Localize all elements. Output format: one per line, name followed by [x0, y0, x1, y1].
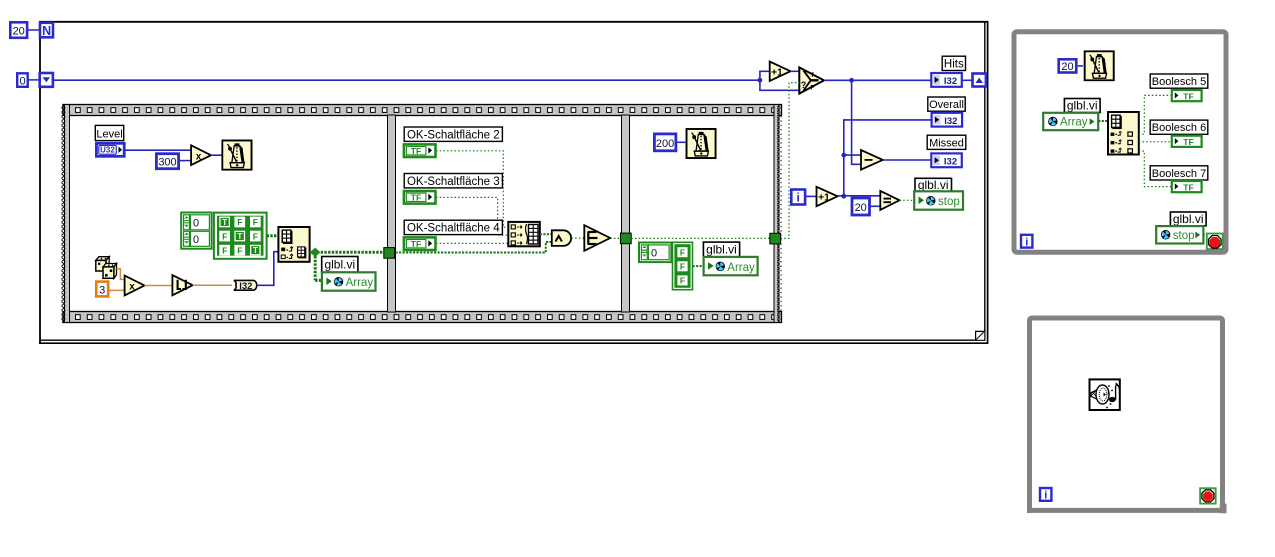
svg-text:N: N [42, 24, 51, 38]
svg-text:+1: +1 [771, 68, 783, 79]
Level label [95, 125, 123, 140]
svg-text:I32: I32 [944, 156, 957, 167]
wire index array to Boolesch 7 [1139, 151, 1172, 187]
wire index array to Boolesch 6 [1139, 141, 1172, 143]
constant 20 (lower) [852, 198, 870, 215]
svg-text:T: T [237, 232, 242, 241]
array cell F (1,0) [219, 231, 230, 242]
constant 200 [654, 134, 676, 151]
svg-text:glbl.vi: glbl.vi [324, 258, 355, 272]
glbl.vi label (loop 1 array) [1064, 99, 1100, 113]
flat sequence bottom film strip [63, 312, 782, 323]
dotted wire array global to index array [1098, 120, 1108, 122]
svg-text:0: 0 [19, 75, 25, 87]
svg-text:20: 20 [1061, 61, 1073, 73]
wire +1 to equal node [838, 195, 881, 197]
wire TF2 to build array [436, 151, 508, 227]
wire 20 to N [28, 29, 39, 31]
index array node (loop 1) [1108, 112, 1139, 155]
junction dot [758, 78, 763, 83]
svg-text:+1: +1 [818, 193, 830, 204]
2D boolean array constant index block [181, 213, 211, 249]
svg-text:F: F [680, 262, 685, 272]
wire I32 to replace array subset [257, 252, 279, 286]
to-I32 conversion node [234, 280, 257, 292]
svg-text:TF: TF [1183, 91, 1193, 101]
constant 300 [156, 154, 178, 169]
svg-text:F: F [253, 217, 258, 227]
svg-text:F: F [253, 231, 258, 241]
branch to subtract upper input [844, 154, 861, 156]
wire 20 to equal node [870, 205, 880, 207]
Overall I32 indicator [932, 113, 963, 127]
array cell F (1,2) [250, 231, 261, 242]
Boolesch 5 label [1150, 74, 1208, 88]
beep.vi sound icon (loop 2) [1090, 379, 1120, 410]
svg-text:Boolesch 7: Boolesch 7 [1152, 168, 1206, 180]
Missed label [927, 135, 966, 149]
svg-text:TF: TF [411, 239, 421, 249]
Missed I32 indicator [931, 153, 962, 167]
svg-text:F: F [222, 231, 227, 241]
1D boolean array constant index block (frame 3) [639, 243, 671, 263]
svg-text:0: 0 [193, 234, 199, 246]
i iteration terminal [791, 190, 805, 205]
wire multiply2 to round [145, 285, 173, 287]
Boolesch 7 TF indicator [1172, 181, 1202, 192]
main blue wire (shift register to select) [53, 79, 760, 81]
while loop 2 border (bottom right) [1027, 318, 1227, 513]
while loop 1 border (top right) [1014, 32, 1226, 253]
dotted wire equal to stop global [900, 199, 915, 201]
for loop resize corner notch [976, 331, 985, 340]
svg-text:Boolesch 6: Boolesch 6 [1152, 122, 1206, 134]
sequence wall frame1/frame2 [388, 115, 396, 312]
wire subtract to Missed [883, 159, 931, 161]
shift register right (up arrow) [973, 74, 986, 87]
wire 20 to wait (loop 1) [1078, 65, 1083, 67]
for loop border [39, 21, 988, 344]
loop 1 iteration terminal i [1021, 235, 1032, 249]
svg-text:glbl.vi: glbl.vi [706, 243, 737, 257]
svg-text:0: 0 [193, 218, 199, 230]
increment +1 node [770, 62, 791, 82]
wire Hits to right shift register [962, 79, 973, 81]
glbl.vi label (frame 3) [703, 242, 739, 257]
wait ms metronome icon (frame 1) [222, 140, 251, 169]
array cell F (2,1) [234, 245, 245, 256]
glbl.vi label (loop 1 stop) [1170, 212, 1206, 226]
array cell F (0,2) [250, 217, 261, 228]
svg-text:glbl.vi: glbl.vi [1067, 99, 1098, 113]
tunnel frame1/frame2 wall [384, 248, 395, 259]
Level U32 control terminal [96, 143, 124, 156]
svg-text:I32: I32 [944, 76, 957, 87]
wire i to +1 [806, 195, 816, 197]
svg-text:i: i [797, 191, 800, 205]
svg-text:Hits: Hits [944, 58, 964, 70]
wire through frame3 [631, 237, 770, 239]
svg-text:i: i [1025, 236, 1028, 248]
svg-text:I32: I32 [944, 116, 957, 127]
svg-text:TF: TF [1183, 182, 1193, 192]
OK-Schaltflaeche 3 label [404, 174, 502, 188]
OK-Schaltflaeche 2 label [404, 127, 502, 141]
wire to tunnel2 [610, 237, 621, 239]
svg-text:OK-Schaltfläche 3: OK-Schaltfläche 3 [407, 176, 500, 188]
svg-text:U32: U32 [100, 145, 115, 154]
Hits I32 indicator [931, 73, 962, 87]
svg-text:stop: stop [1173, 230, 1195, 242]
flat sequence left serrated edge [62, 105, 70, 323]
wait ms metronome icon (loop 1) [1085, 51, 1114, 80]
constant 20 (loop count) [10, 22, 27, 38]
select node [799, 67, 824, 93]
wire multiply to wait [211, 154, 222, 156]
array cell T (1,1) [234, 231, 245, 242]
flat sequence top film strip [63, 105, 782, 116]
svg-text:T: T [253, 246, 258, 255]
N count terminal [40, 23, 53, 38]
tunnel frame2/frame3 wall [620, 233, 631, 244]
shift register left (down arrow) [40, 73, 53, 87]
constant 3 [96, 282, 108, 297]
svg-text:TF: TF [1183, 137, 1193, 147]
2D array wire node output with diamond junction [310, 248, 384, 281]
svg-text:i: i [1044, 490, 1047, 502]
2D boolean array constant body [214, 213, 267, 259]
wire 3 to multiply2 [109, 289, 125, 291]
OK-Schaltflaeche 2 TF terminal [404, 144, 436, 157]
svg-text:Array: Array [1060, 117, 1088, 129]
round to nearest node [172, 275, 192, 295]
build array node [508, 222, 540, 246]
wire round to I32 [193, 284, 232, 286]
wire branch down to select f input [760, 80, 800, 90]
svg-text:20: 20 [13, 26, 25, 38]
tunnel sequence right edge [770, 233, 781, 244]
svg-text:TF: TF [411, 146, 421, 156]
svg-text:OK-Schaltfläche 2: OK-Schaltfläche 2 [407, 129, 500, 141]
array cell T (0,0) [219, 217, 230, 228]
Boolesch 7 label [1150, 166, 1208, 180]
AND node [552, 230, 571, 246]
svg-text:I32: I32 [239, 281, 252, 292]
svg-text:F: F [222, 245, 227, 255]
wire U32 to multiply [126, 149, 192, 151]
svg-text:Overall: Overall [929, 99, 964, 111]
svg-text:glbl.vi: glbl.vi [1173, 212, 1204, 226]
svg-text:0: 0 [651, 248, 657, 260]
2D array wire constant to replace-array-subset [267, 234, 279, 237]
multiply node 2 (dice x 3) [125, 276, 145, 296]
array cell F (0,1) [234, 217, 245, 228]
wire select output to Hits [824, 79, 931, 81]
1D boolean array constant body (frame 3) [673, 242, 693, 289]
svg-text:F: F [811, 86, 815, 92]
svg-text:T: T [222, 218, 227, 227]
sequence wall frame2/frame3 [622, 115, 630, 312]
svg-text:F: F [237, 245, 242, 255]
glbl.vi Array global read (loop 1) [1043, 113, 1098, 130]
loop 1 stop condition terminal [1207, 234, 1223, 250]
svg-text:Boolesch 5: Boolesch 5 [1152, 76, 1206, 88]
svg-text:glbl.vi: glbl.vi [918, 178, 949, 192]
svg-text:300: 300 [158, 157, 176, 169]
svg-text:Array: Array [727, 262, 755, 274]
Hits label [942, 56, 965, 70]
Overall label [928, 97, 965, 111]
1D array wire from tunnel through frame2 to AND [396, 242, 552, 253]
svg-text:3: 3 [99, 285, 105, 297]
svg-text:Level: Level [96, 128, 122, 140]
constant 0 (shift register init) [17, 73, 28, 87]
svg-text:x: x [129, 282, 135, 293]
Boolesch 5 TF indicator [1172, 90, 1202, 101]
wire down from Hits junction to subtract lower input [852, 80, 862, 164]
multiply node (Level x 300) [191, 145, 211, 165]
junction dot on Hits wire [849, 78, 854, 83]
replace array subset node [278, 227, 309, 262]
svg-text:stop: stop [938, 196, 960, 208]
glbl.vi stop global (write) [914, 191, 963, 209]
svg-text:F: F [680, 276, 685, 286]
svg-text:x: x [196, 151, 202, 162]
array cell T (2,2) [250, 245, 261, 256]
OK-Schaltflaeche 3 TF terminal [404, 191, 436, 204]
subtract node [861, 150, 883, 170]
flat sequence right serrated edge [774, 105, 782, 323]
loop 2 stop condition terminal [1200, 488, 1216, 503]
wire TF4 to build array [436, 242, 508, 244]
wire 0 to shift register [28, 79, 39, 81]
and array elements node [584, 225, 610, 251]
wire 300 to multiply [180, 160, 191, 162]
glbl.vi label (stop) [915, 178, 952, 192]
wire stop global to loop condition [1203, 234, 1207, 236]
svg-text:T: T [811, 73, 815, 79]
dice random number icon [96, 257, 117, 279]
OK-Schaltflaeche 4 TF terminal [404, 237, 436, 250]
constant 20 (loop 1) [1059, 59, 1077, 73]
OK-Schaltflaeche 4 label [404, 220, 502, 234]
wait ms metronome icon (frame 3) [687, 129, 716, 158]
svg-text:Missed: Missed [929, 137, 964, 149]
wire index array to Boolesch 5 [1139, 95, 1172, 134]
wire AND to and-array-elements [571, 237, 584, 239]
wire TF3 to build array [436, 197, 508, 235]
equal node [880, 191, 899, 210]
wire build array to AND [540, 233, 552, 235]
svg-text:TF: TF [411, 192, 421, 202]
green dotted wire from sequence to select s input [781, 83, 800, 239]
svg-text:20: 20 [855, 202, 867, 214]
glbl.vi label (frame1) [322, 257, 358, 273]
svg-text:Array: Array [346, 277, 374, 289]
loop 2 iteration terminal i [1040, 488, 1051, 502]
1D array wire to glbl (frame 3) [693, 265, 704, 267]
overall/i+1 vertical wire [844, 120, 932, 196]
wire dice to multiply2 [117, 269, 125, 280]
svg-text:F: F [680, 247, 685, 257]
svg-text:F: F [237, 217, 242, 227]
Boolesch 6 TF indicator [1172, 136, 1202, 147]
glbl.vi Array global write (frame 3) [704, 257, 758, 275]
wire +1 to select t input [791, 70, 800, 72]
svg-text:200: 200 [656, 138, 674, 150]
Boolesch 6 label [1150, 120, 1208, 134]
array cell F (2,0) [219, 245, 230, 256]
increment +1 node (lower) [817, 187, 838, 206]
wire branch up to +1 [760, 71, 770, 80]
glbl.vi stop global read (loop 1) [1156, 226, 1203, 243]
svg-text:OK-Schaltfläche 4: OK-Schaltfläche 4 [407, 223, 500, 235]
wire 200 to wait [677, 141, 685, 143]
glbl.vi Array global write (frame1) [322, 272, 376, 290]
